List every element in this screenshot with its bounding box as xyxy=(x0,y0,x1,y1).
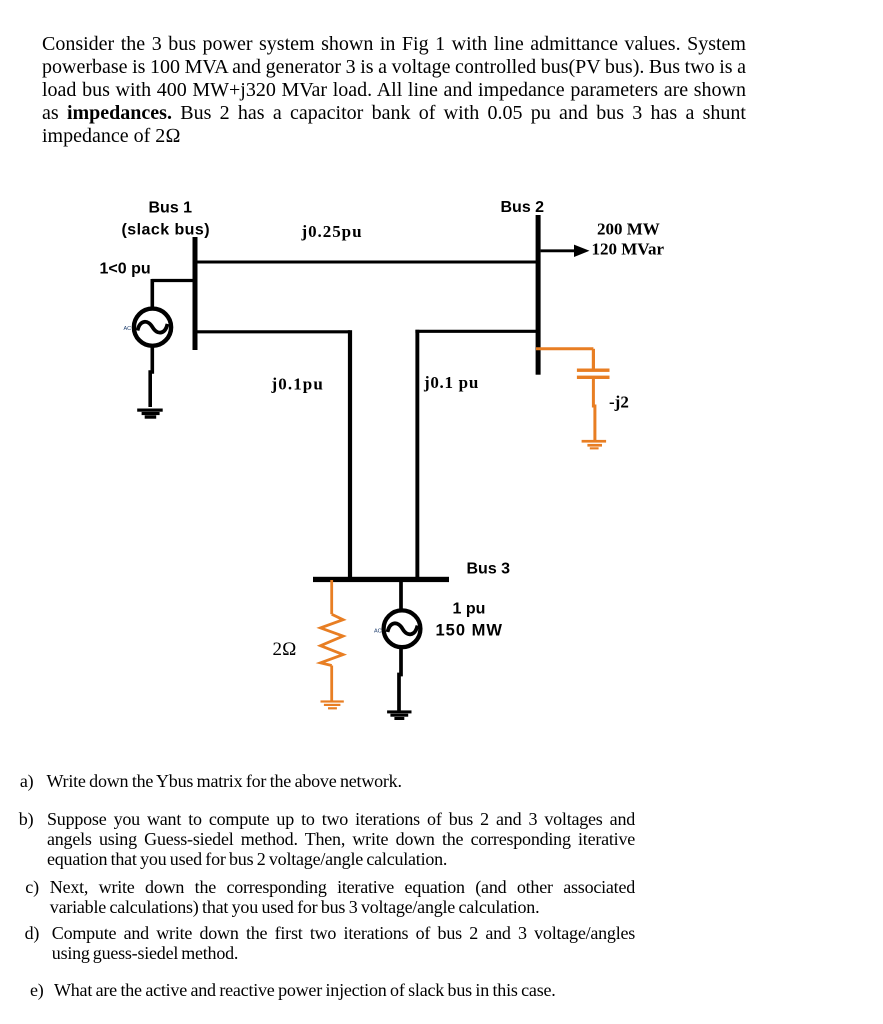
ground G1 xyxy=(137,409,163,419)
svg-text:Bus 3: Bus 3 xyxy=(467,561,511,578)
wire generator G1 lead vertical xyxy=(151,279,155,309)
load arrow at Bus 2 xyxy=(541,245,590,257)
ground capacitor (orange) xyxy=(582,440,607,450)
node Bus 1 busbar xyxy=(193,237,198,350)
svg-text:j0.1pu: j0.1pu xyxy=(271,375,324,394)
node Bus 2 busbar xyxy=(536,215,541,375)
svg-text:Bus 2: Bus 2 xyxy=(501,199,545,216)
svg-text:j0.25pu: j0.25pu xyxy=(301,222,363,241)
svg-text:AC: AC xyxy=(374,629,382,635)
wire line Bus1-Bus2 (j0.25pu) xyxy=(198,261,539,264)
svg-text:120 MVar: 120 MVar xyxy=(592,239,665,258)
wire generator G1 lead horizontal xyxy=(152,279,195,282)
ground resistor (orange) xyxy=(321,700,344,709)
wire Bus2 to middle corner (j0.1 pu branch) xyxy=(415,330,538,333)
wire G1 to ground xyxy=(150,346,152,407)
svg-text:Bus 1: Bus 1 xyxy=(149,200,193,217)
wire resistor top lead (orange) xyxy=(330,580,333,614)
svg-text:200 MW: 200 MW xyxy=(597,220,660,239)
question list xyxy=(20,771,34,791)
svg-text:150 MW: 150 MW xyxy=(436,622,503,640)
node Bus 3 busbar xyxy=(313,577,449,582)
wire resistor bottom lead (orange) xyxy=(330,666,333,702)
svg-text:1 pu: 1 pu xyxy=(453,601,486,618)
node Bus 1 label xyxy=(122,200,211,239)
svg-text:2Ω: 2Ω xyxy=(273,639,297,660)
svg-text:-j2: -j2 xyxy=(609,393,629,412)
svg-text:1<0 pu: 1<0 pu xyxy=(100,261,151,278)
wire generator G3 lead xyxy=(399,579,403,611)
wire G3 to ground xyxy=(399,647,401,711)
svg-text:(slack bus): (slack bus) xyxy=(122,222,211,239)
top paragraph xyxy=(42,33,746,148)
svg-text:AC: AC xyxy=(124,326,132,332)
wire Bus1 to middle corner (j0.1pu branch) xyxy=(198,330,351,333)
wire capacitor branch vertical upper (orange) xyxy=(592,349,595,369)
svg-text:j0.1 pu: j0.1 pu xyxy=(423,373,479,392)
wire vertical drop to Bus3 (left) xyxy=(348,330,352,579)
generator G3 (AC source) xyxy=(374,610,420,647)
capacitor C (0.05 pu bank) xyxy=(577,369,610,380)
wire capacitor branch horizontal (orange) xyxy=(536,347,593,350)
resistor 2 ohm shunt (orange zigzag) xyxy=(321,614,344,665)
wire capacitor to ground (orange) xyxy=(593,379,595,440)
ground G3 xyxy=(387,710,411,720)
generator G1 (AC source) xyxy=(124,309,172,346)
wire vertical drop to Bus3 (right) xyxy=(415,330,419,579)
